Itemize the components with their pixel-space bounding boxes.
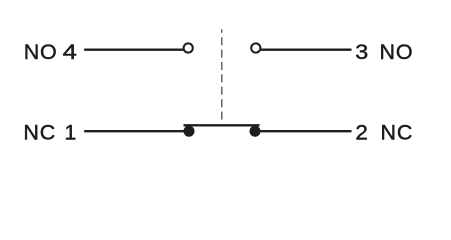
NO contact left (open circle) [184, 43, 193, 52]
wire terminal 4 to NO contact [84, 49, 183, 51]
wire NO contact to terminal 3 [261, 49, 352, 51]
svg-text:1: 1 [64, 121, 76, 145]
svg-text:3: 3 [355, 40, 368, 64]
NC contact junction left (filled dot) [184, 126, 195, 137]
svg-text:NO: NO [380, 40, 414, 64]
contact bridge (closed) [184, 124, 260, 126]
svg-text:4: 4 [63, 40, 77, 64]
wire terminal 1 to NC contact [84, 130, 189, 132]
svg-text:NC: NC [381, 121, 414, 145]
NC contact junction right (filled dot) [250, 126, 261, 137]
svg-text:NO: NO [24, 40, 58, 64]
NO contact right (open circle) [251, 43, 260, 52]
actuator linkage (dashed line) [221, 29, 223, 125]
svg-text:2: 2 [355, 121, 368, 145]
svg-text:NC: NC [23, 121, 56, 145]
wire NC contact to terminal 2 [255, 130, 352, 132]
